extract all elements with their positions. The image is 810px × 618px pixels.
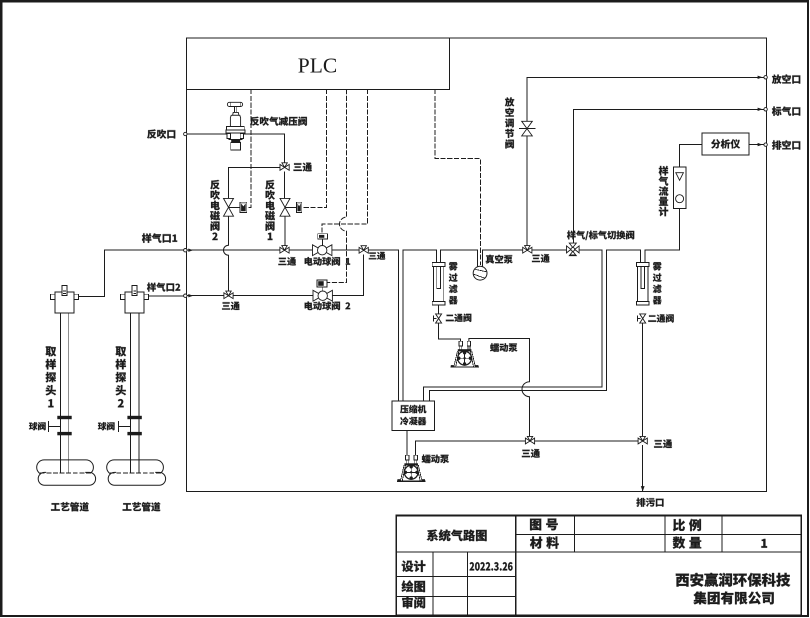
control line to electric ball valve 1	[322, 90, 367, 234]
title: material label	[530, 537, 559, 549]
wire probe 2 to sample port 2	[148, 295, 184, 297]
exhaust port marker	[764, 143, 767, 146]
left mist filter	[432, 262, 445, 305]
label probe 1	[45, 346, 56, 407]
label electric ball valve 2	[305, 301, 351, 310]
title: company name line 1	[676, 573, 790, 587]
label sample port 1	[142, 233, 177, 243]
label analyzer	[711, 139, 740, 148]
tee valve after ball valve 1	[359, 246, 368, 254]
electric ball valve 1	[313, 245, 332, 256]
label probe 2	[115, 346, 126, 407]
label peristaltic pump 1	[490, 343, 517, 352]
label back-blow port	[147, 129, 175, 138]
label drain tee right	[654, 439, 672, 448]
wire peristaltic pump 1 outlet with jump arc to drain tee	[469, 339, 530, 437]
wire vent line through regulating valve	[527, 77, 764, 246]
tee valve on drain header right	[638, 436, 647, 444]
label right two-way valve	[648, 314, 673, 322]
sample port 1 marker	[184, 249, 187, 252]
label process pipe 2	[123, 502, 161, 511]
wire drain header	[416, 441, 643, 455]
wire tee to back-blow solenoid 1	[284, 172, 286, 199]
label pressure reducing valve	[250, 117, 307, 126]
tee valve on drain header left	[525, 436, 534, 444]
label switch valve	[567, 231, 634, 241]
cabinet boundary frame	[186, 38, 766, 492]
label vent regulating valve	[505, 97, 514, 148]
back-blow pressure reducing valve	[226, 102, 245, 150]
label left mist filter	[449, 262, 458, 304]
label main line tee	[532, 254, 550, 263]
wire drain tee to blowdown port	[642, 445, 644, 490]
control line to electric ball valve 2 (with crossover arc)	[328, 90, 347, 283]
sampling probe 1	[48, 286, 78, 460]
label right mist filter	[653, 262, 662, 304]
label vent port	[772, 74, 800, 83]
wire two-way valve to peristaltic pump 1	[439, 323, 461, 341]
label back-blow solenoid 2	[210, 180, 220, 240]
wire flow meter to analyzer	[680, 145, 702, 167]
title block outline	[396, 516, 801, 616]
wire right filter drain down to tee	[642, 323, 644, 437]
wire cooler outlet 1 to left mist filter	[403, 250, 436, 401]
solenoid box of electric ball valve 2	[317, 280, 327, 287]
label ball valve 1	[29, 422, 46, 430]
label blowdown port	[636, 498, 663, 507]
sampling probe 2	[118, 286, 148, 460]
label left two-way valve	[446, 314, 471, 322]
title: design label	[402, 560, 426, 572]
title: draw label	[402, 580, 425, 592]
wire right filter outlet to flow meter	[645, 209, 680, 263]
label process pipe 1	[51, 502, 89, 511]
peristaltic pump 1	[451, 341, 479, 367]
label sample port 2	[147, 283, 180, 292]
title: review label	[402, 597, 425, 609]
label tee on line 1	[278, 257, 296, 266]
label tee on line 2	[222, 302, 240, 311]
label exhaust port	[772, 140, 800, 149]
compressor cooler box	[392, 401, 434, 431]
sample/standard gas switch valve	[567, 243, 580, 256]
electric ball valve 2	[313, 290, 332, 301]
label peristaltic pump 2	[422, 454, 449, 463]
vent regulating valve	[519, 121, 535, 136]
back-blow solenoid valve 1	[280, 198, 302, 216]
label drain tee left	[522, 449, 540, 458]
title: quantity label	[673, 537, 702, 549]
control line to vacuum pump	[435, 90, 480, 265]
wire cooler outlet 2 to right mist filter	[429, 250, 640, 401]
two-way valve under right filter	[638, 314, 646, 323]
sample port 2 marker	[184, 294, 187, 297]
two-way valve under left filter	[433, 314, 441, 323]
vacuum pump	[473, 250, 487, 280]
vent port marker	[764, 76, 767, 79]
wire sample line 2	[186, 255, 363, 296]
label compressor cooler	[400, 405, 426, 413]
wire probe 1 to sample port 1	[79, 250, 185, 296]
control line to back-blow solenoid valve 1	[302, 90, 327, 208]
peristaltic pump 2	[397, 455, 425, 481]
probe 1 shaft into pipe	[60, 460, 68, 472]
probe 2 shaft into pipe	[130, 460, 138, 472]
solenoid box of electric ball valve 1	[318, 234, 328, 239]
wire tee to back-blow solenoid 2	[229, 167, 281, 198]
label tee 1	[293, 163, 311, 172]
standard gas port marker	[764, 108, 767, 111]
wire back-blow inlet to pressure regulator and down to tee	[186, 134, 284, 163]
control line to back-blow solenoid valve 2	[247, 90, 251, 208]
title: drawing name	[427, 529, 487, 541]
title: scale label	[673, 519, 701, 531]
title: drawing number label	[530, 519, 558, 531]
wire main line through tee and switch valve to cooler inlet 2	[423, 250, 602, 401]
tee valve on main line	[523, 246, 532, 254]
label standard gas port	[772, 107, 800, 116]
blowdown port marker	[641, 486, 645, 492]
title: design date	[470, 562, 513, 570]
wire sample line 1	[186, 250, 398, 401]
wire left filter outlet to vacuum pump drop	[441, 250, 478, 266]
title: quantity value	[761, 539, 767, 548]
wire standard gas line to switch valve	[573, 109, 764, 245]
label ball valve 2	[98, 422, 115, 430]
right mist filter	[637, 262, 650, 305]
title: company name line 2	[693, 591, 773, 604]
label electric ball valve 1	[305, 257, 351, 266]
wire cooler bottom to peristaltic pump 2	[406, 431, 408, 456]
wire left filter drain to two-way valve	[438, 305, 440, 314]
process pipe 2	[107, 460, 166, 485]
back-blow port marker	[184, 132, 187, 135]
wire solenoid 2 down with jump arc to sample line 2	[224, 216, 229, 291]
tee valve (back-blow splitter)	[280, 163, 289, 171]
tee valve on sample line 1	[280, 246, 289, 254]
label tee after ball valve 1	[369, 252, 385, 260]
wire analyzer to exhaust port	[749, 144, 764, 146]
process pipe 1	[37, 460, 96, 485]
sample gas flow meter	[673, 167, 686, 209]
label vacuum pump	[486, 255, 513, 264]
tee valve on sample line 2	[224, 291, 233, 299]
label back-blow solenoid 1	[265, 180, 275, 240]
back-blow solenoid valve 2	[224, 198, 247, 216]
svg-text:PLC: PLC	[298, 54, 337, 78]
gas analyzer box	[702, 133, 749, 155]
PLC controller box	[186, 38, 449, 90]
label flow meter	[659, 166, 669, 216]
wire solenoid 1 down to sample line 1 tee	[284, 216, 286, 246]
